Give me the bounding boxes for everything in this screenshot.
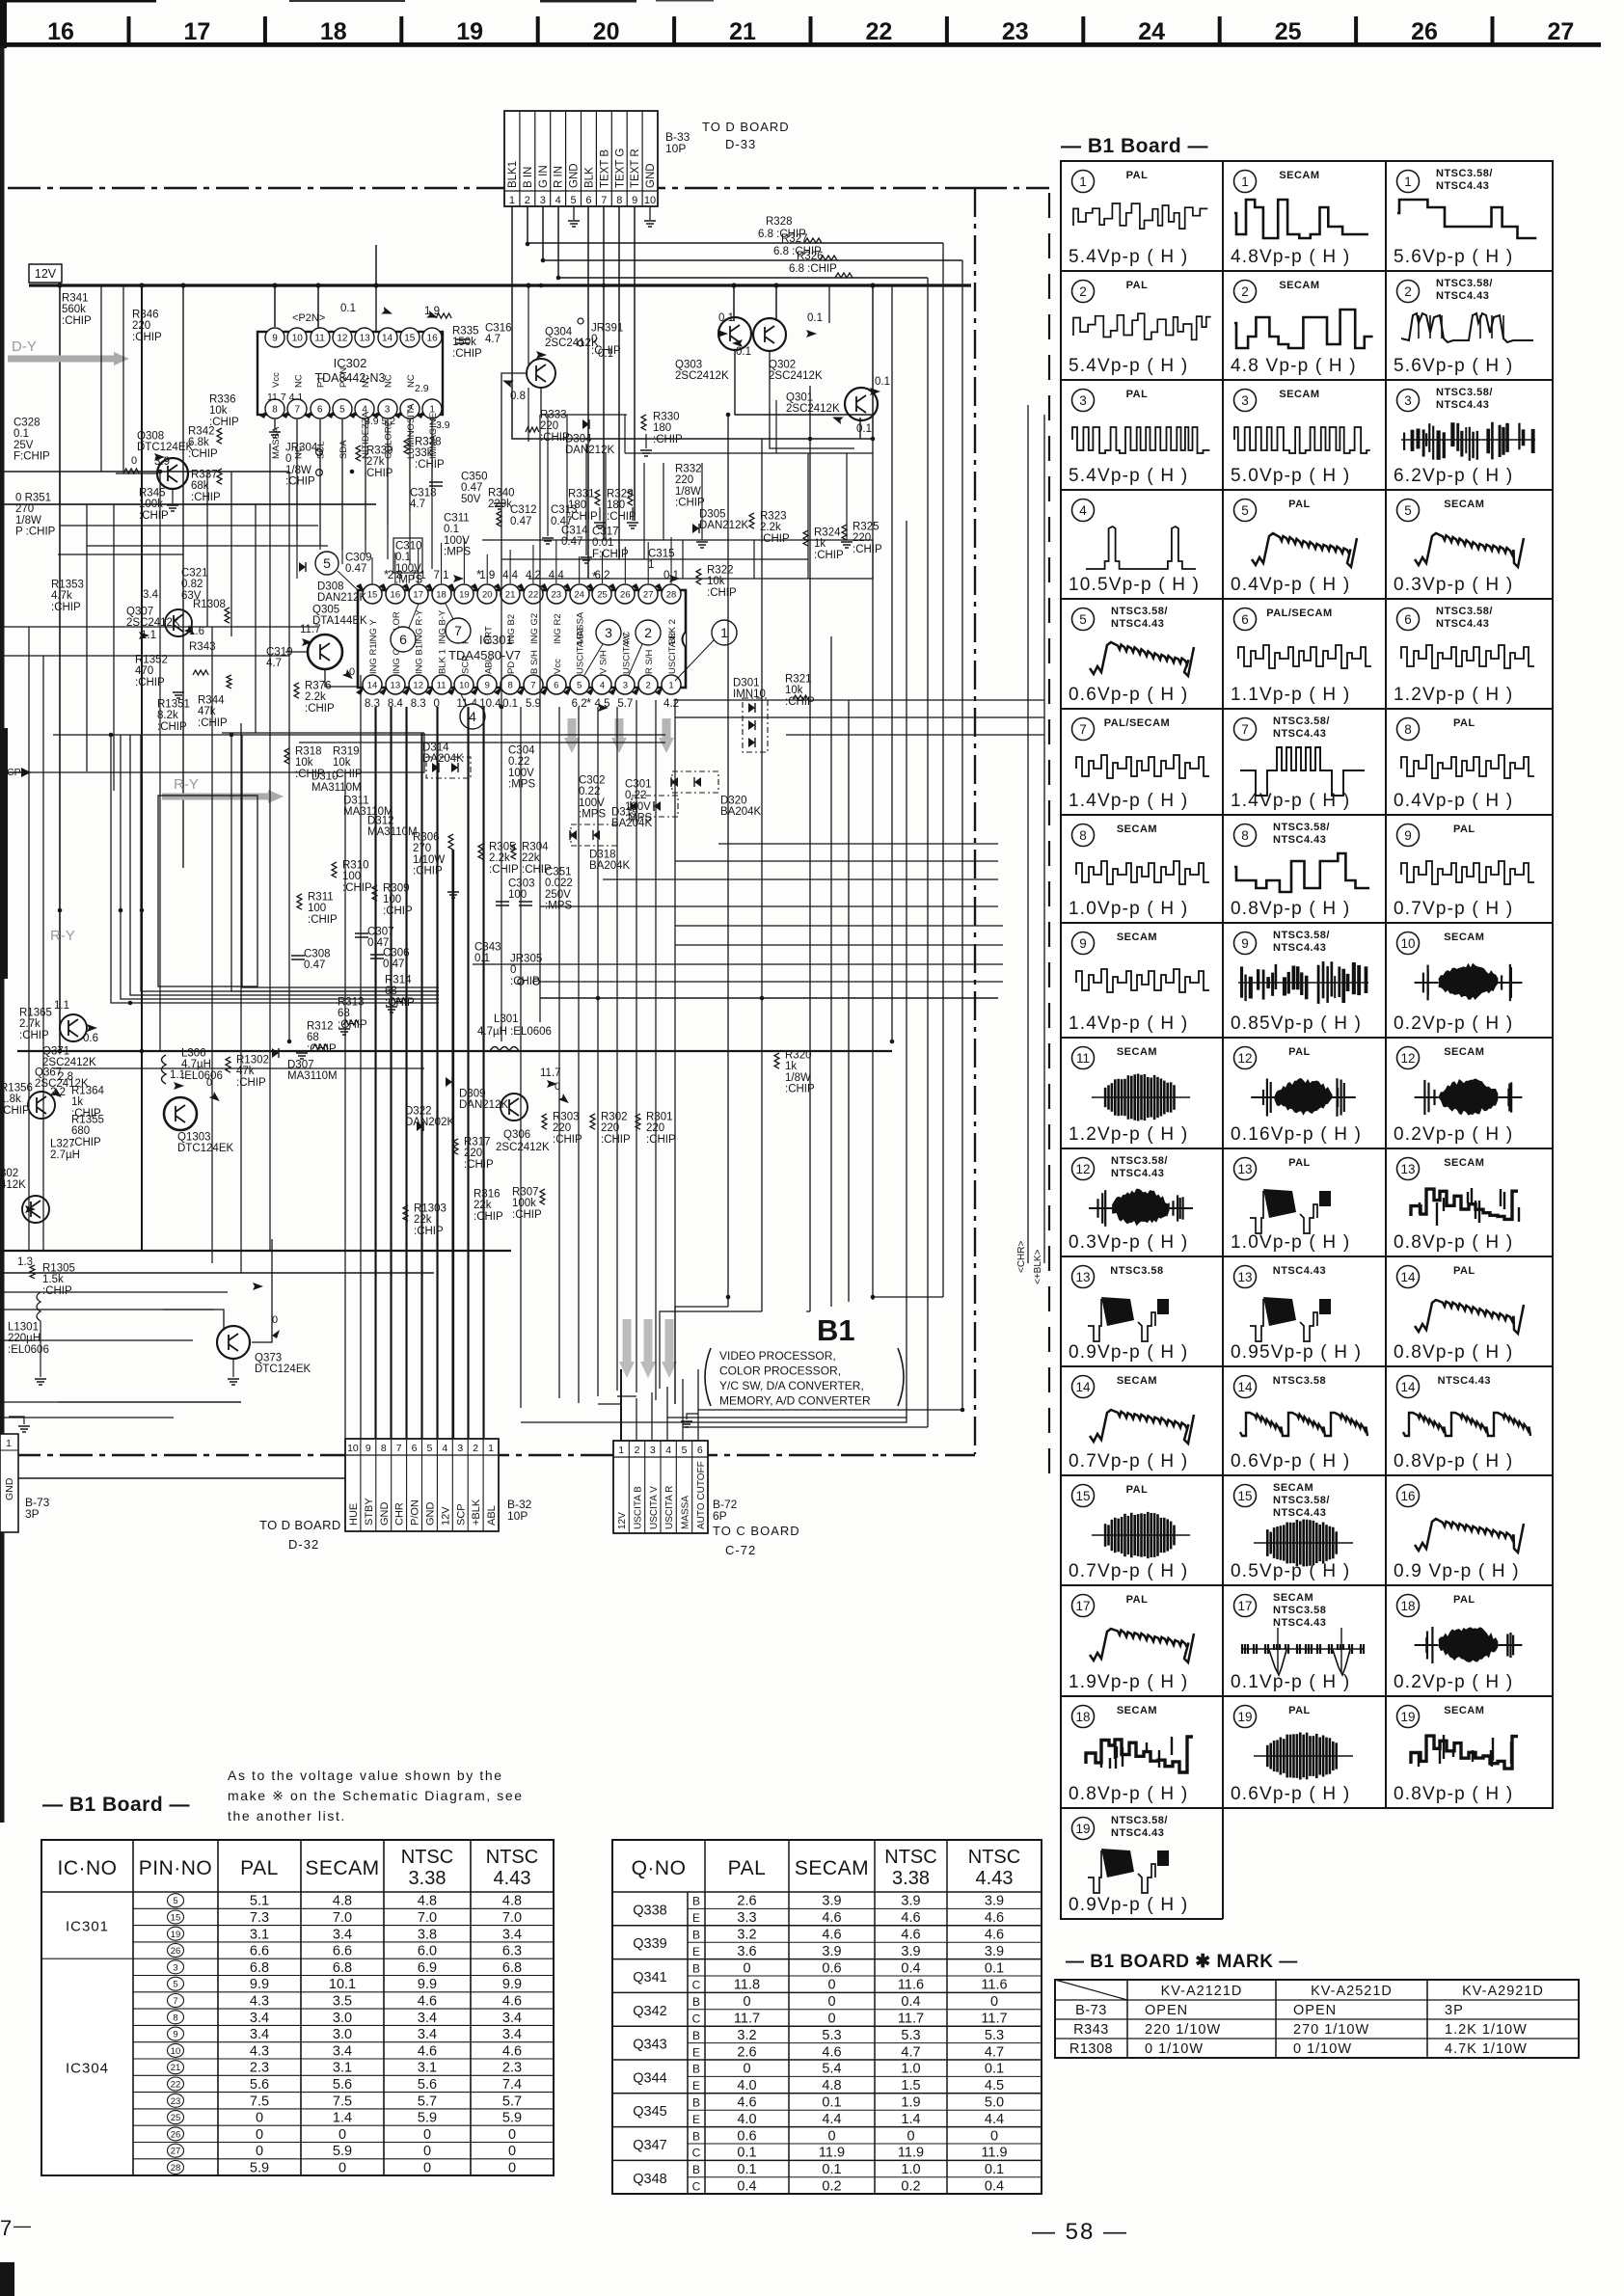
waveform cell 5 SECAM 0.3Vp-p — [1397, 500, 1420, 522]
svg-text:NTSC3.58: NTSC3.58 — [1110, 1265, 1163, 1277]
svg-text:8.3: 8.3 — [411, 698, 426, 710]
svg-text:13: 13 — [1400, 1162, 1415, 1176]
waveform cell 19 SECAM 0.8Vp-p — [1397, 1706, 1420, 1728]
waveform cell 9 SECAM 1.4Vp-p — [1072, 932, 1095, 955]
svg-text:3: 3 — [605, 625, 612, 640]
svg-text::CHIP: :CHIP — [452, 348, 482, 360]
svg-text:16: 16 — [391, 590, 401, 601]
svg-text:1.4: 1.4 — [901, 2112, 920, 2127]
svg-text:1: 1 — [1241, 175, 1249, 189]
ruler tick — [1218, 16, 1222, 42]
svg-text:220: 220 — [601, 1122, 619, 1134]
svg-text:3: 3 — [385, 405, 391, 416]
node test point 5 — [315, 552, 338, 575]
svg-text:0.3Vp-p ( H ): 0.3Vp-p ( H ) — [1069, 1232, 1188, 1253]
svg-text:0.2Vp-p ( H ): 0.2Vp-p ( H ) — [1394, 1013, 1513, 1034]
svg-text:10: 10 — [459, 681, 470, 691]
svg-text:1: 1 — [6, 1439, 12, 1449]
svg-text:R1365: R1365 — [19, 1007, 52, 1018]
IC U IC302 TDA8442-N3 — [257, 332, 443, 415]
wire — [420, 733, 422, 1439]
svg-text:D320: D320 — [720, 795, 747, 806]
svg-text:3.38: 3.38 — [409, 1868, 447, 1889]
svg-text:4.3: 4.3 — [250, 2043, 269, 2059]
svg-text:47k: 47k — [198, 706, 216, 717]
svg-text:0.1Vp-p ( H ): 0.1Vp-p ( H ) — [1231, 1672, 1350, 1692]
svg-text:3.4: 3.4 — [333, 1927, 352, 1942]
wire — [663, 463, 664, 540]
svg-text:PAL: PAL — [1288, 1705, 1311, 1716]
svg-text:BRT: BRT — [483, 626, 494, 644]
svg-text:0.4: 0.4 — [901, 1960, 920, 1976]
svg-text:15: 15 — [1075, 1489, 1090, 1503]
svg-text:0: 0 — [508, 2144, 516, 2159]
arrow mark — [453, 575, 464, 582]
svg-text:P1: P1 — [316, 376, 327, 388]
svg-text:10k: 10k — [333, 757, 351, 769]
svg-text::CHIP: :CHIP — [760, 533, 790, 545]
svg-text:1.9Vp-p ( H ): 1.9Vp-p ( H ) — [1069, 1672, 1188, 1692]
svg-text:C321: C321 — [181, 567, 208, 579]
wire — [697, 1369, 699, 1441]
wire — [927, 278, 929, 1427]
svg-text:the another list.: the another list. — [228, 1808, 346, 1823]
svg-text:0: 0 — [423, 2127, 431, 2143]
svg-text:DTC124EK: DTC124EK — [255, 1364, 311, 1375]
svg-text:0.9Vp-p ( H ): 0.9Vp-p ( H ) — [1069, 1895, 1188, 1915]
svg-text:13: 13 — [360, 334, 371, 344]
svg-text:CHIP: CHIP — [366, 468, 393, 479]
svg-text:8: 8 — [272, 405, 278, 416]
wire — [230, 472, 232, 636]
svg-text:2.3: 2.3 — [250, 2061, 269, 2076]
svg-text:5.7: 5.7 — [617, 698, 633, 710]
wire bottom-right collector steps — [675, 1307, 728, 1404]
svg-text:1: 1 — [509, 195, 515, 206]
svg-text:11.6: 11.6 — [898, 1978, 924, 1993]
svg-text:C303: C303 — [508, 878, 535, 889]
wire — [528, 578, 873, 580]
svg-text:4.6: 4.6 — [502, 2043, 522, 2059]
svg-text:G IN: G IN — [538, 165, 550, 188]
svg-text:8.3: 8.3 — [365, 698, 380, 710]
svg-text::CHIP: :CHIP — [342, 882, 372, 894]
svg-text:USCITA B3: USCITA B3 — [576, 628, 586, 674]
svg-text:Vcc: Vcc — [553, 659, 563, 674]
svg-text:3.38: 3.38 — [892, 1868, 930, 1889]
svg-text:2: 2 — [646, 681, 651, 691]
svg-text:PAL: PAL — [1288, 1046, 1311, 1058]
svg-text:1: 1 — [720, 625, 728, 640]
wire — [405, 707, 407, 1439]
svg-text:1: 1 — [1404, 175, 1412, 189]
svg-text::CHIP: :CHIP — [814, 550, 844, 561]
svg-text:NTSC4.43: NTSC4.43 — [1273, 834, 1326, 846]
svg-text:23: 23 — [552, 590, 562, 601]
svg-text:10k: 10k — [295, 757, 313, 769]
svg-text:PIN·NO: PIN·NO — [139, 1857, 213, 1879]
svg-text:2.7k: 2.7k — [19, 1018, 41, 1030]
svg-text:KV-A2521D: KV-A2521D — [1311, 1984, 1393, 1999]
svg-text:7.5: 7.5 — [250, 2093, 269, 2109]
svg-text:C343: C343 — [474, 941, 501, 953]
svg-text:0.22: 0.22 — [508, 756, 529, 768]
svg-text::CHIP: :CHIP — [0, 1105, 30, 1117]
svg-text:NTSC: NTSC — [486, 1847, 538, 1868]
svg-text:0.6Vp-p ( H ): 0.6Vp-p ( H ) — [1231, 1784, 1350, 1804]
svg-text:TO C BOARD: TO C BOARD — [713, 1524, 800, 1538]
svg-text:1.5: 1.5 — [901, 2078, 920, 2093]
svg-text:5.9: 5.9 — [333, 2144, 352, 2159]
svg-text:R339: R339 — [366, 445, 393, 456]
arrow mark — [87, 1024, 97, 1032]
svg-text:R333: R333 — [540, 409, 567, 420]
wire — [597, 707, 599, 1396]
svg-text:USCITA V: USCITA V — [621, 633, 632, 674]
wire — [828, 285, 830, 323]
svg-text:0: 0 — [990, 2128, 998, 2144]
wire — [17, 1050, 892, 1052]
waveform cell 7 NTSC3.58//NTSC4.43 1.4Vp-p — [1234, 718, 1257, 741]
wire — [100, 285, 102, 472]
svg-text:PAL/SECAM: PAL/SECAM — [1266, 608, 1332, 619]
IC301 pin 20 BRT — [471, 583, 479, 592]
wire — [360, 675, 362, 1439]
waveform cell 13 NTSC3.58 0.9Vp-p — [1072, 1266, 1095, 1288]
waveform cell 5 PAL 0.4Vp-p — [1234, 500, 1257, 522]
wire — [682, 1379, 684, 1441]
wire — [141, 735, 439, 991]
wire B-33 pin1 — [512, 206, 873, 439]
svg-text:ING R1: ING R1 — [368, 643, 379, 674]
svg-text:4.6: 4.6 — [901, 1910, 920, 1926]
wire — [540, 905, 998, 907]
svg-text:NTSC3.58/: NTSC3.58/ — [1273, 930, 1330, 941]
arrow mark — [381, 307, 393, 317]
svg-text:B: B — [692, 2129, 700, 2143]
wire — [501, 579, 502, 1041]
svg-text:0.4: 0.4 — [737, 2179, 756, 2195]
svg-text:NTSC3.58/: NTSC3.58/ — [1436, 606, 1493, 617]
svg-text:COLOR PROCESSOR,: COLOR PROCESSOR, — [719, 1364, 841, 1378]
svg-text:0.9Vp-p ( H ): 0.9Vp-p ( H ) — [1069, 1342, 1188, 1363]
svg-text:23: 23 — [1002, 18, 1029, 45]
svg-text:4.6: 4.6 — [737, 2095, 756, 2111]
board boundary dash-dot top — [8, 187, 974, 190]
svg-text:NTSC3.58: NTSC3.58 — [1273, 1375, 1326, 1387]
svg-text:PD: PD — [506, 662, 517, 674]
svg-text:3.8: 3.8 — [418, 1927, 437, 1942]
svg-text::CHIP: :CHIP — [285, 476, 315, 488]
svg-text:B: B — [692, 1895, 700, 1908]
svg-text:0.47: 0.47 — [383, 959, 404, 970]
svg-text:1: 1 — [618, 1445, 624, 1456]
wire — [579, 556, 581, 583]
svg-text:PAL: PAL — [1453, 824, 1475, 835]
svg-text:D301: D301 — [733, 677, 760, 689]
svg-text::CHIP: :CHIP — [42, 1285, 72, 1297]
svg-text:C306: C306 — [383, 947, 410, 959]
svg-text:0.9 Vp-p ( H ): 0.9 Vp-p ( H ) — [1394, 1561, 1520, 1581]
svg-text:SECAM: SECAM — [1444, 1157, 1484, 1169]
svg-text:8.4: 8.4 — [388, 698, 404, 710]
svg-text:BA204K: BA204K — [720, 806, 762, 818]
wire — [130, 735, 439, 995]
svg-text:R324: R324 — [814, 527, 841, 538]
wire Q304 emitter — [541, 388, 627, 415]
wire x390 drop — [375, 245, 377, 285]
svg-text::CHIP: :CHIP — [707, 587, 737, 599]
svg-text:1: 1 — [1079, 175, 1087, 189]
svg-text:0.47: 0.47 — [345, 563, 366, 575]
svg-text:100V: 100V — [444, 535, 470, 547]
svg-text:5: 5 — [173, 1896, 177, 1906]
svg-text:220µH: 220µH — [8, 1333, 41, 1344]
svg-text::CHIP: :CHIP — [489, 864, 519, 876]
svg-text:1.1Vp-p ( H ): 1.1Vp-p ( H ) — [1231, 685, 1350, 705]
svg-text:3.6: 3.6 — [737, 1944, 756, 1959]
ghost arrow down lower — [665, 1319, 674, 1365]
wire — [1043, 415, 1045, 1263]
wire left mid — [141, 472, 143, 501]
svg-text:11.8: 11.8 — [734, 1978, 760, 1993]
svg-text:5.3: 5.3 — [822, 2028, 841, 2043]
wire top horizontals left-center — [53, 734, 665, 736]
svg-text:<CHR>: <CHR> — [1016, 1240, 1027, 1273]
svg-text:20: 20 — [482, 590, 493, 601]
wire — [319, 419, 321, 550]
svg-text:6: 6 — [1241, 612, 1249, 627]
svg-text:0.1: 0.1 — [807, 312, 823, 324]
svg-text:0.6Vp-p ( H ): 0.6Vp-p ( H ) — [1069, 685, 1188, 705]
svg-text:<P2N>: <P2N> — [292, 312, 325, 324]
svg-text:PAL: PAL — [1126, 389, 1149, 400]
ground — [542, 538, 554, 544]
svg-text:2: 2 — [473, 1443, 478, 1454]
svg-text:4.7µH :EL0606: 4.7µH :EL0606 — [477, 1026, 552, 1038]
svg-text:1k: 1k — [71, 1096, 83, 1108]
wire B-33 pin3 to R327 — [543, 206, 962, 260]
svg-text:0.4: 0.4 — [901, 1994, 920, 2010]
svg-text:7.4: 7.4 — [502, 2077, 522, 2093]
svg-text:5.0Vp-p ( H ): 5.0Vp-p ( H ) — [1231, 466, 1350, 486]
wire 12V drop left — [59, 285, 61, 1051]
svg-text:0.8Vp-p ( H ): 0.8Vp-p ( H ) — [1394, 1232, 1513, 1253]
svg-text:3.3: 3.3 — [737, 1910, 756, 1926]
svg-text:PAL: PAL — [240, 1857, 279, 1879]
svg-text:100: 100 — [508, 889, 527, 901]
svg-text:21: 21 — [505, 590, 516, 601]
svg-text:2SC2412K: 2SC2412K — [675, 370, 729, 382]
svg-text:0.8Vp-p ( H ): 0.8Vp-p ( H ) — [1069, 1784, 1188, 1804]
svg-text:12V: 12V — [617, 1512, 628, 1529]
svg-text:DAN212K: DAN212K — [699, 520, 748, 531]
svg-text:NTSC4.43: NTSC4.43 — [1273, 942, 1326, 954]
resistor R326 — [835, 273, 853, 278]
waveform cell 2 NTSC3.58//NTSC4.43 5.6Vp-p — [1397, 281, 1420, 303]
svg-text:8: 8 — [1404, 722, 1412, 737]
svg-text:5.6: 5.6 — [333, 2077, 352, 2093]
IC302 pin 1 — [417, 411, 424, 419]
wire — [211, 627, 213, 1263]
wire — [394, 553, 396, 583]
waveform cell 17 PAL 1.9Vp-p — [1072, 1595, 1095, 1617]
svg-text:NTSC3.58/: NTSC3.58/ — [1436, 387, 1493, 398]
svg-text:27: 27 — [1547, 18, 1574, 45]
svg-text:P :CHIP: P :CHIP — [15, 527, 56, 538]
svg-text:25: 25 — [171, 2113, 181, 2123]
svg-text:7: 7 — [1079, 722, 1087, 737]
svg-text:0.95Vp-p ( H ): 0.95Vp-p ( H ) — [1231, 1342, 1362, 1363]
svg-text:7: 7 — [454, 623, 462, 638]
wire — [670, 537, 672, 583]
svg-text:16: 16 — [1400, 1489, 1415, 1503]
wire — [540, 981, 1003, 983]
svg-text:NTSC: NTSC — [968, 1847, 1020, 1868]
svg-text:12: 12 — [337, 334, 348, 344]
svg-text:L327: L327 — [50, 1138, 75, 1149]
svg-text:6: 6 — [585, 195, 591, 206]
svg-text:5: 5 — [339, 405, 345, 416]
wire — [636, 1398, 637, 1441]
svg-text:B: B — [692, 1995, 700, 2009]
svg-text:D-33: D-33 — [725, 137, 756, 151]
IC301 pin 27 CL — [632, 583, 640, 592]
svg-text:5.9: 5.9 — [250, 2160, 269, 2175]
svg-text:0: 0 — [827, 2128, 835, 2144]
svg-text:NTSC4.43: NTSC4.43 — [1438, 1375, 1491, 1387]
svg-text:18: 18 — [436, 590, 447, 601]
wire — [288, 472, 290, 1041]
wire — [605, 453, 607, 540]
wire — [159, 472, 161, 1051]
svg-text:50V: 50V — [461, 494, 481, 505]
svg-text:3.2: 3.2 — [737, 1928, 756, 1943]
waveform cell 4 10.5Vp-p — [1072, 500, 1095, 522]
wire — [406, 707, 408, 1439]
svg-text:5.4Vp-p ( H ): 5.4Vp-p ( H ) — [1069, 466, 1188, 486]
svg-text:4.5: 4.5 — [985, 2078, 1004, 2093]
svg-text::CHIP: :CHIP — [338, 1019, 367, 1031]
svg-text:Q307: Q307 — [126, 606, 153, 617]
wire horiz mid right — [675, 925, 1003, 927]
svg-text::CHIP: :CHIP — [591, 345, 621, 357]
wire — [486, 554, 488, 583]
svg-text:F:CHIP: F:CHIP — [14, 451, 50, 463]
ruler tick — [1354, 16, 1358, 42]
svg-text:HUE: HUE — [348, 1503, 360, 1526]
svg-text::CHIP: :CHIP — [307, 1043, 337, 1055]
svg-text:24: 24 — [1138, 18, 1165, 45]
ground B-33 pin5 — [573, 206, 575, 220]
svg-text::CHIP: :CHIP — [51, 602, 81, 613]
svg-text:6.3: 6.3 — [502, 1944, 522, 1959]
wire — [206, 472, 208, 627]
svg-text:D-32: D-32 — [288, 1537, 319, 1552]
svg-text:4.7: 4.7 — [266, 658, 282, 669]
diode D318 BA204K — [571, 824, 617, 846]
svg-text:1.1: 1.1 — [54, 1000, 69, 1012]
svg-text:0.8Vp-p ( H ): 0.8Vp-p ( H ) — [1394, 1451, 1513, 1472]
wire — [528, 285, 529, 366]
svg-text:4: 4 — [665, 1445, 671, 1456]
svg-text:0.4Vp-p ( H ): 0.4Vp-p ( H ) — [1394, 791, 1513, 811]
svg-text:SECAM: SECAM — [1279, 280, 1319, 291]
svg-text:5.7: 5.7 — [418, 2093, 437, 2109]
svg-text:8: 8 — [616, 195, 622, 206]
svg-text:27: 27 — [171, 2147, 181, 2157]
wire x905 drop — [872, 285, 874, 439]
svg-text:5.6Vp-p ( H ): 5.6Vp-p ( H ) — [1394, 247, 1513, 267]
wire — [0, 1401, 241, 1403]
wire — [727, 415, 729, 1307]
svg-text:1/8W: 1/8W — [675, 486, 701, 498]
junction dots left loop — [109, 733, 114, 738]
svg-text:5.9: 5.9 — [502, 2111, 522, 2126]
svg-text:0.6Vp-p ( H ): 0.6Vp-p ( H ) — [1231, 1451, 1350, 1472]
svg-text:10: 10 — [292, 334, 304, 344]
ghost arrow down lower — [623, 1319, 632, 1365]
svg-text:6: 6 — [554, 681, 558, 691]
svg-text:0.1: 0.1 — [340, 303, 356, 314]
IC302 pin 6 — [305, 411, 312, 419]
svg-text:R-Y: R-Y — [174, 776, 199, 793]
svg-text:9: 9 — [272, 334, 278, 344]
wire — [58, 1401, 241, 1403]
wire y1108 — [53, 1067, 424, 1069]
svg-text:100: 100 — [308, 903, 326, 914]
svg-text:180: 180 — [568, 500, 586, 511]
page left edge strip — [0, 46, 5, 1823]
wire — [409, 419, 411, 511]
svg-text:B: B — [692, 2163, 700, 2176]
svg-text:R342: R342 — [188, 425, 215, 437]
wire — [775, 400, 777, 453]
svg-text:19: 19 — [171, 1930, 181, 1940]
svg-text:13: 13 — [1237, 1162, 1252, 1176]
wire — [547, 415, 549, 536]
svg-text:17: 17 — [1075, 1599, 1090, 1613]
svg-text:1.4Vp-p ( H ): 1.4Vp-p ( H ) — [1069, 791, 1188, 811]
IC301 pin 1 USCITA R — [655, 687, 663, 695]
svg-text:12: 12 — [1237, 1051, 1252, 1066]
svg-text:Q302: Q302 — [769, 359, 796, 370]
svg-text:SECAM: SECAM — [1117, 1375, 1157, 1387]
svg-text:26: 26 — [171, 1946, 181, 1957]
svg-text:PAL: PAL — [728, 1857, 767, 1879]
svg-text:14: 14 — [1400, 1380, 1416, 1394]
svg-text:0.1: 0.1 — [985, 2162, 1004, 2177]
wire — [872, 540, 874, 579]
svg-text:11.7: 11.7 — [734, 2012, 760, 2027]
waveform cell 2 SECAM 4.8 Vp-p — [1234, 281, 1257, 303]
svg-text:1/8W: 1/8W — [785, 1072, 811, 1084]
svg-text:5: 5 — [1404, 503, 1412, 518]
svg-text:5.7: 5.7 — [502, 2093, 522, 2109]
svg-text:OPEN: OPEN — [1293, 2003, 1337, 2018]
wire — [846, 453, 848, 540]
svg-text:SECAM: SECAM — [1117, 1705, 1157, 1716]
wire Q303 Q302 collectors — [733, 285, 735, 321]
svg-text:19: 19 — [456, 18, 483, 45]
svg-text:0.6: 0.6 — [822, 1960, 841, 1976]
svg-text:R335: R335 — [452, 325, 479, 337]
svg-text:1.4Vp-p ( H ): 1.4Vp-p ( H ) — [1069, 1013, 1188, 1034]
svg-text:SECAM: SECAM — [1444, 499, 1484, 510]
wire — [437, 707, 439, 1439]
svg-text:3.4: 3.4 — [502, 2011, 522, 2026]
IC301 pin 5 USCITA B3 — [563, 687, 572, 695]
